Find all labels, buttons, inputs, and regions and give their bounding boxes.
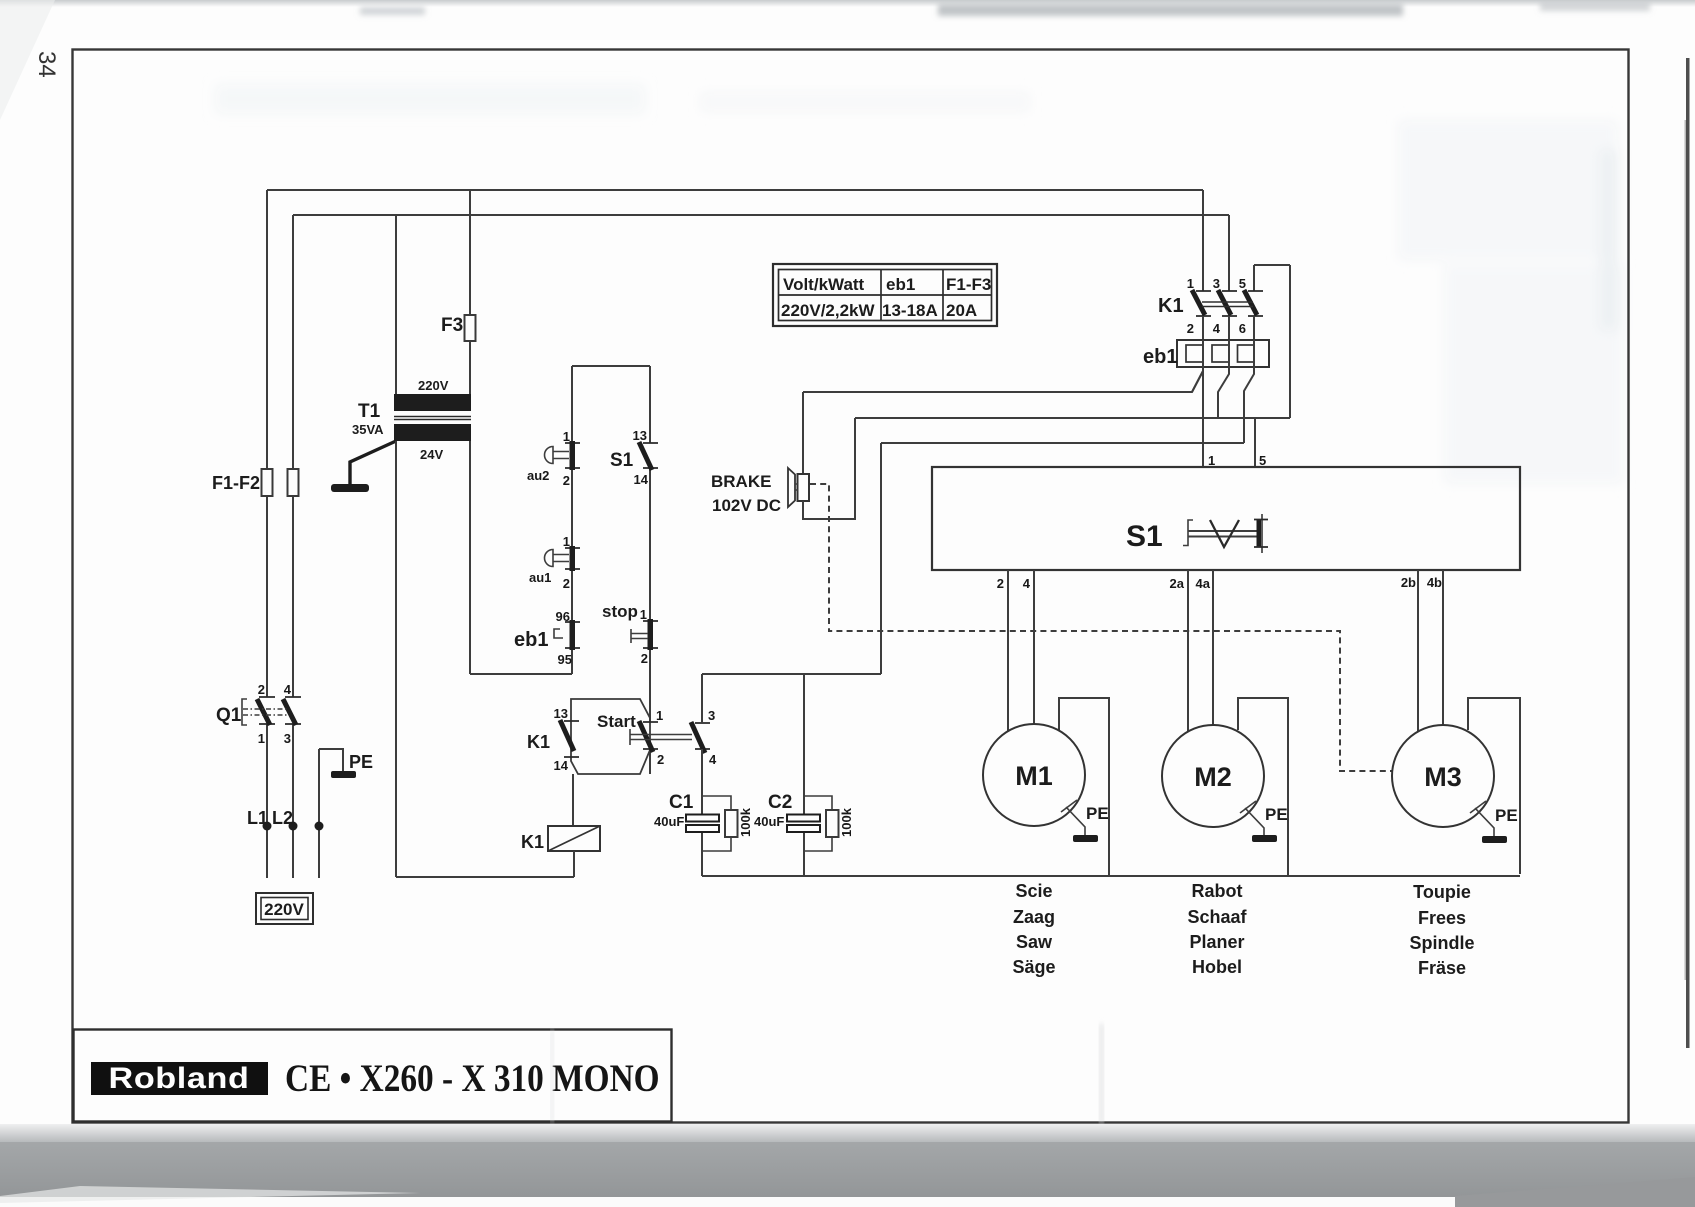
svg-text:K1: K1: [1158, 295, 1184, 317]
capacitor C2 plates: [787, 815, 820, 822]
svg-text:Toupie: Toupie: [1413, 882, 1471, 902]
wire control top link: [572, 365, 650, 367]
wire K1 coil to 24V return: [573, 851, 575, 877]
contact stop (NC pushbutton): [643, 621, 658, 648]
S1 cam switch symbol: [1183, 520, 1193, 546]
wire eb1 output 2 to line bus: [1218, 367, 1229, 418]
wire L1 riser: [266, 190, 268, 878]
svg-text:13: 13: [554, 706, 568, 721]
svg-text:95: 95: [558, 652, 572, 667]
dashed brake control line: [810, 484, 1392, 771]
svg-text:M1: M1: [1015, 761, 1053, 791]
svg-text:14: 14: [634, 472, 649, 487]
svg-text:5: 5: [1259, 453, 1266, 468]
svg-text:100k: 100k: [839, 807, 854, 837]
svg-text:1: 1: [656, 708, 663, 723]
wire eb1 output 1 to S1 and line bus: [1192, 367, 1203, 467]
PE bond M2: [1240, 801, 1264, 835]
wire 24V return bus: [396, 876, 574, 878]
brake coil (horn symbol): [798, 474, 810, 501]
svg-text:eb1: eb1: [514, 629, 548, 651]
svg-text:2: 2: [657, 752, 664, 767]
transformer T1 primary winding: [394, 394, 471, 411]
svg-text:40uF: 40uF: [754, 814, 784, 829]
wire M3 feeds: [1418, 570, 1443, 732]
resistor R2 100k (C2 bleeder): [804, 796, 832, 851]
PE bond M3: [1470, 801, 1494, 836]
svg-text:BRAKE: BRAKE: [711, 472, 771, 491]
motor M2: [1162, 725, 1264, 827]
switch Q1 pole 2: [285, 697, 301, 724]
svg-text:24V: 24V: [420, 447, 443, 462]
svg-text:Schaaf: Schaaf: [1187, 907, 1247, 927]
contactor K1 pole 3: [1248, 291, 1263, 316]
svg-text:220V/2,2kW: 220V/2,2kW: [781, 301, 876, 320]
svg-text:1: 1: [563, 429, 570, 444]
wire feed from eb1 pole3: [880, 443, 882, 674]
svg-text:2a: 2a: [1170, 576, 1185, 591]
wire motor line 2 bus: [855, 417, 1290, 419]
svg-text:PE: PE: [1495, 806, 1518, 825]
wire secondary to chassis ground: [350, 441, 396, 484]
scanner bed bands at page bottom: [0, 1124, 1695, 1142]
wire au column riser: [571, 366, 573, 674]
svg-text:4: 4: [1213, 321, 1221, 336]
eb1 overload trip symbol: [554, 629, 563, 638]
wire M3 return loop: [1468, 698, 1520, 874]
svg-text:stop: stop: [602, 602, 638, 621]
svg-text:Volt/kWatt: Volt/kWatt: [783, 275, 865, 294]
svg-text:1: 1: [1208, 453, 1215, 468]
220V supply box: [256, 893, 313, 924]
wire M1 feeds: [1008, 570, 1034, 732]
svg-text:Planer: Planer: [1189, 932, 1244, 952]
contact 3/4 (capacitor switch): [695, 723, 710, 749]
svg-text:Start: Start: [597, 712, 636, 731]
wire C2 branch: [803, 674, 805, 876]
svg-text:PE: PE: [1086, 804, 1109, 823]
svg-text:Rabot: Rabot: [1192, 881, 1243, 901]
svg-text:Scie: Scie: [1015, 881, 1052, 901]
svg-text:2: 2: [563, 576, 570, 591]
contactor K1 pole 2: [1222, 291, 1237, 316]
coil K1: [548, 826, 600, 851]
svg-text:L2: L2: [272, 808, 293, 828]
motor M1: [983, 724, 1085, 826]
wire brake return: [803, 418, 855, 519]
wire control box bottom: [470, 673, 572, 675]
svg-text:Zaag: Zaag: [1013, 907, 1055, 927]
wire K1 pole1 drop: [1202, 190, 1204, 291]
svg-text:Fräse: Fräse: [1418, 958, 1466, 978]
svg-text:PE: PE: [349, 752, 373, 772]
transformer T1 core: [394, 417, 471, 420]
svg-text:K1: K1: [521, 832, 544, 852]
wire motor area bottom rail: [702, 875, 1520, 877]
wire motor line 1 bus: [803, 371, 1203, 392]
stop actuator rod: [631, 629, 648, 643]
contact eb1 95/96 (NC overload): [565, 622, 580, 648]
wire C1 branch: [701, 674, 703, 876]
svg-text:5: 5: [1239, 276, 1246, 291]
page right edge shadow line: [1686, 58, 1690, 1048]
title block box: [74, 1030, 672, 1122]
Q1 bracket: [242, 699, 247, 725]
svg-text:S1: S1: [610, 450, 634, 471]
svg-text:4: 4: [284, 682, 292, 697]
rating table: [773, 264, 997, 326]
svg-text:Robland: Robland: [109, 1061, 250, 1094]
node L1: [263, 822, 272, 831]
svg-text:1: 1: [258, 731, 265, 746]
svg-text:220V: 220V: [264, 900, 304, 919]
svg-text:F1-F3: F1-F3: [946, 275, 991, 294]
wire M2 return loop: [1238, 698, 1288, 875]
svg-text:F3: F3: [441, 315, 463, 336]
au1 actuator plunger: [545, 550, 570, 567]
svg-text:3: 3: [708, 708, 715, 723]
svg-text:2b: 2b: [1401, 575, 1416, 590]
svg-text:T1: T1: [358, 401, 381, 422]
contact au1 (NC plunger): [565, 548, 580, 569]
node L2: [289, 822, 298, 831]
wire 24V feed down to control: [469, 441, 471, 674]
wire F3 branch from bus A: [469, 190, 471, 394]
fuse F2: [288, 469, 299, 496]
svg-text:35VA: 35VA: [352, 422, 384, 437]
wire M1 return loop: [1059, 698, 1109, 875]
svg-text:2: 2: [1187, 321, 1194, 336]
wire brake drop: [802, 392, 804, 474]
svg-text:4a: 4a: [1196, 576, 1211, 591]
svg-text:S1: S1: [1126, 520, 1163, 553]
transformer T1 secondary winding: [394, 424, 471, 441]
wire eb1 pole wires through block: [1203, 340, 1254, 367]
contact Start 1/2 (NO pushbutton): [643, 722, 658, 749]
switch Q1 pole 1: [259, 697, 275, 724]
svg-text:102V DC: 102V DC: [712, 496, 781, 515]
svg-text:220V: 220V: [418, 378, 449, 393]
wire K1 pole2 drop: [1228, 215, 1230, 291]
svg-text:14: 14: [554, 758, 569, 773]
svg-text:M3: M3: [1424, 762, 1462, 792]
svg-text:20A: 20A: [946, 301, 977, 320]
ground T1 earth bar: [331, 484, 369, 492]
wire hexagon to K1 coil: [572, 774, 574, 826]
wire L2 riser: [292, 215, 294, 878]
svg-text:L1: L1: [247, 808, 268, 828]
wire 24V return riser: [395, 441, 397, 877]
svg-text:PE: PE: [1265, 805, 1288, 824]
K1 mechanical link: [1202, 302, 1253, 307]
wire S1 terminal 5 drop: [1254, 418, 1256, 467]
wire eb1 output 3 to line bus: [1244, 367, 1254, 443]
svg-text:Säge: Säge: [1012, 957, 1055, 977]
wire K1 outputs into eb1: [1203, 316, 1254, 340]
wire capacitor feed top rail: [702, 673, 881, 675]
svg-text:eb1: eb1: [886, 275, 915, 294]
Q1 mechanical link (dash-dot): [243, 709, 288, 715]
svg-text:2: 2: [563, 473, 570, 488]
Robland logo: [91, 1062, 268, 1095]
capacitor C1 plates: [686, 815, 719, 822]
motor M3: [1392, 725, 1494, 827]
fuse F3: [465, 315, 476, 341]
wire PE riser: [318, 749, 320, 878]
contact S1 13/14: [643, 443, 658, 468]
svg-text:M2: M2: [1194, 762, 1232, 792]
wire M2 feeds: [1188, 570, 1213, 732]
svg-text:34: 34: [33, 51, 60, 78]
svg-text:eb1: eb1: [1143, 346, 1177, 368]
svg-text:Spindle: Spindle: [1409, 933, 1474, 953]
contactor K1 pole 1: [1196, 291, 1211, 316]
svg-text:3: 3: [284, 731, 291, 746]
svg-text:1: 1: [1187, 276, 1194, 291]
svg-text:2: 2: [258, 682, 265, 697]
start actuator rod and mechanical link: [630, 729, 692, 745]
svg-text:F1-F2: F1-F2: [212, 473, 260, 493]
wire bus A (L1 top): [267, 189, 1203, 191]
svg-text:4: 4: [1023, 576, 1031, 591]
svg-text:au1: au1: [529, 570, 551, 585]
wire motor line 3 bus: [881, 442, 1244, 444]
wire S1/stop column: [649, 366, 651, 774]
svg-text:100k: 100k: [738, 807, 753, 837]
svg-text:2: 2: [641, 651, 648, 666]
svg-text:13: 13: [633, 428, 647, 443]
wire K1 pole3 jumper: [1254, 265, 1290, 418]
svg-text:Q1: Q1: [216, 705, 242, 726]
svg-text:4b: 4b: [1427, 575, 1442, 590]
wire bus B (L2 top): [293, 214, 1229, 216]
start button enclosure (hexagon): [571, 699, 650, 774]
svg-text:96: 96: [556, 609, 570, 624]
PE bond M1: [1061, 800, 1085, 835]
contact au2 (NC plunger): [565, 443, 580, 468]
svg-text:Hobel: Hobel: [1192, 957, 1242, 977]
svg-text:Frees: Frees: [1418, 908, 1466, 928]
svg-text:4: 4: [709, 752, 717, 767]
svg-text:1: 1: [563, 534, 570, 549]
wire PE elbow: [319, 749, 343, 771]
svg-text:13-18A: 13-18A: [882, 301, 938, 320]
svg-text:3: 3: [1213, 276, 1220, 291]
au2 actuator plunger: [545, 447, 570, 464]
svg-text:6: 6: [1239, 321, 1246, 336]
svg-text:au2: au2: [527, 468, 549, 483]
svg-text:40uF: 40uF: [654, 814, 684, 829]
selector switch S1 box: [932, 467, 1520, 570]
svg-text:1: 1: [640, 607, 647, 622]
svg-text:CE • X260 - X 310 MONO: CE • X260 - X 310 MONO: [285, 1057, 660, 1100]
svg-text:Saw: Saw: [1016, 932, 1053, 952]
svg-text:2: 2: [997, 576, 1004, 591]
wire primary feed from bus B: [395, 215, 397, 394]
contact K1 13/14 (holding): [564, 721, 579, 757]
node PE terminal: [315, 822, 324, 831]
fuse F1: [262, 469, 273, 496]
svg-text:C2: C2: [768, 792, 792, 813]
ground PE earth bar: [331, 771, 356, 778]
svg-text:K1: K1: [527, 732, 550, 752]
overload relay eb1 block: [1177, 340, 1269, 367]
svg-text:C1: C1: [669, 792, 694, 813]
resistor R1 100k (C1 bleeder): [702, 796, 731, 851]
